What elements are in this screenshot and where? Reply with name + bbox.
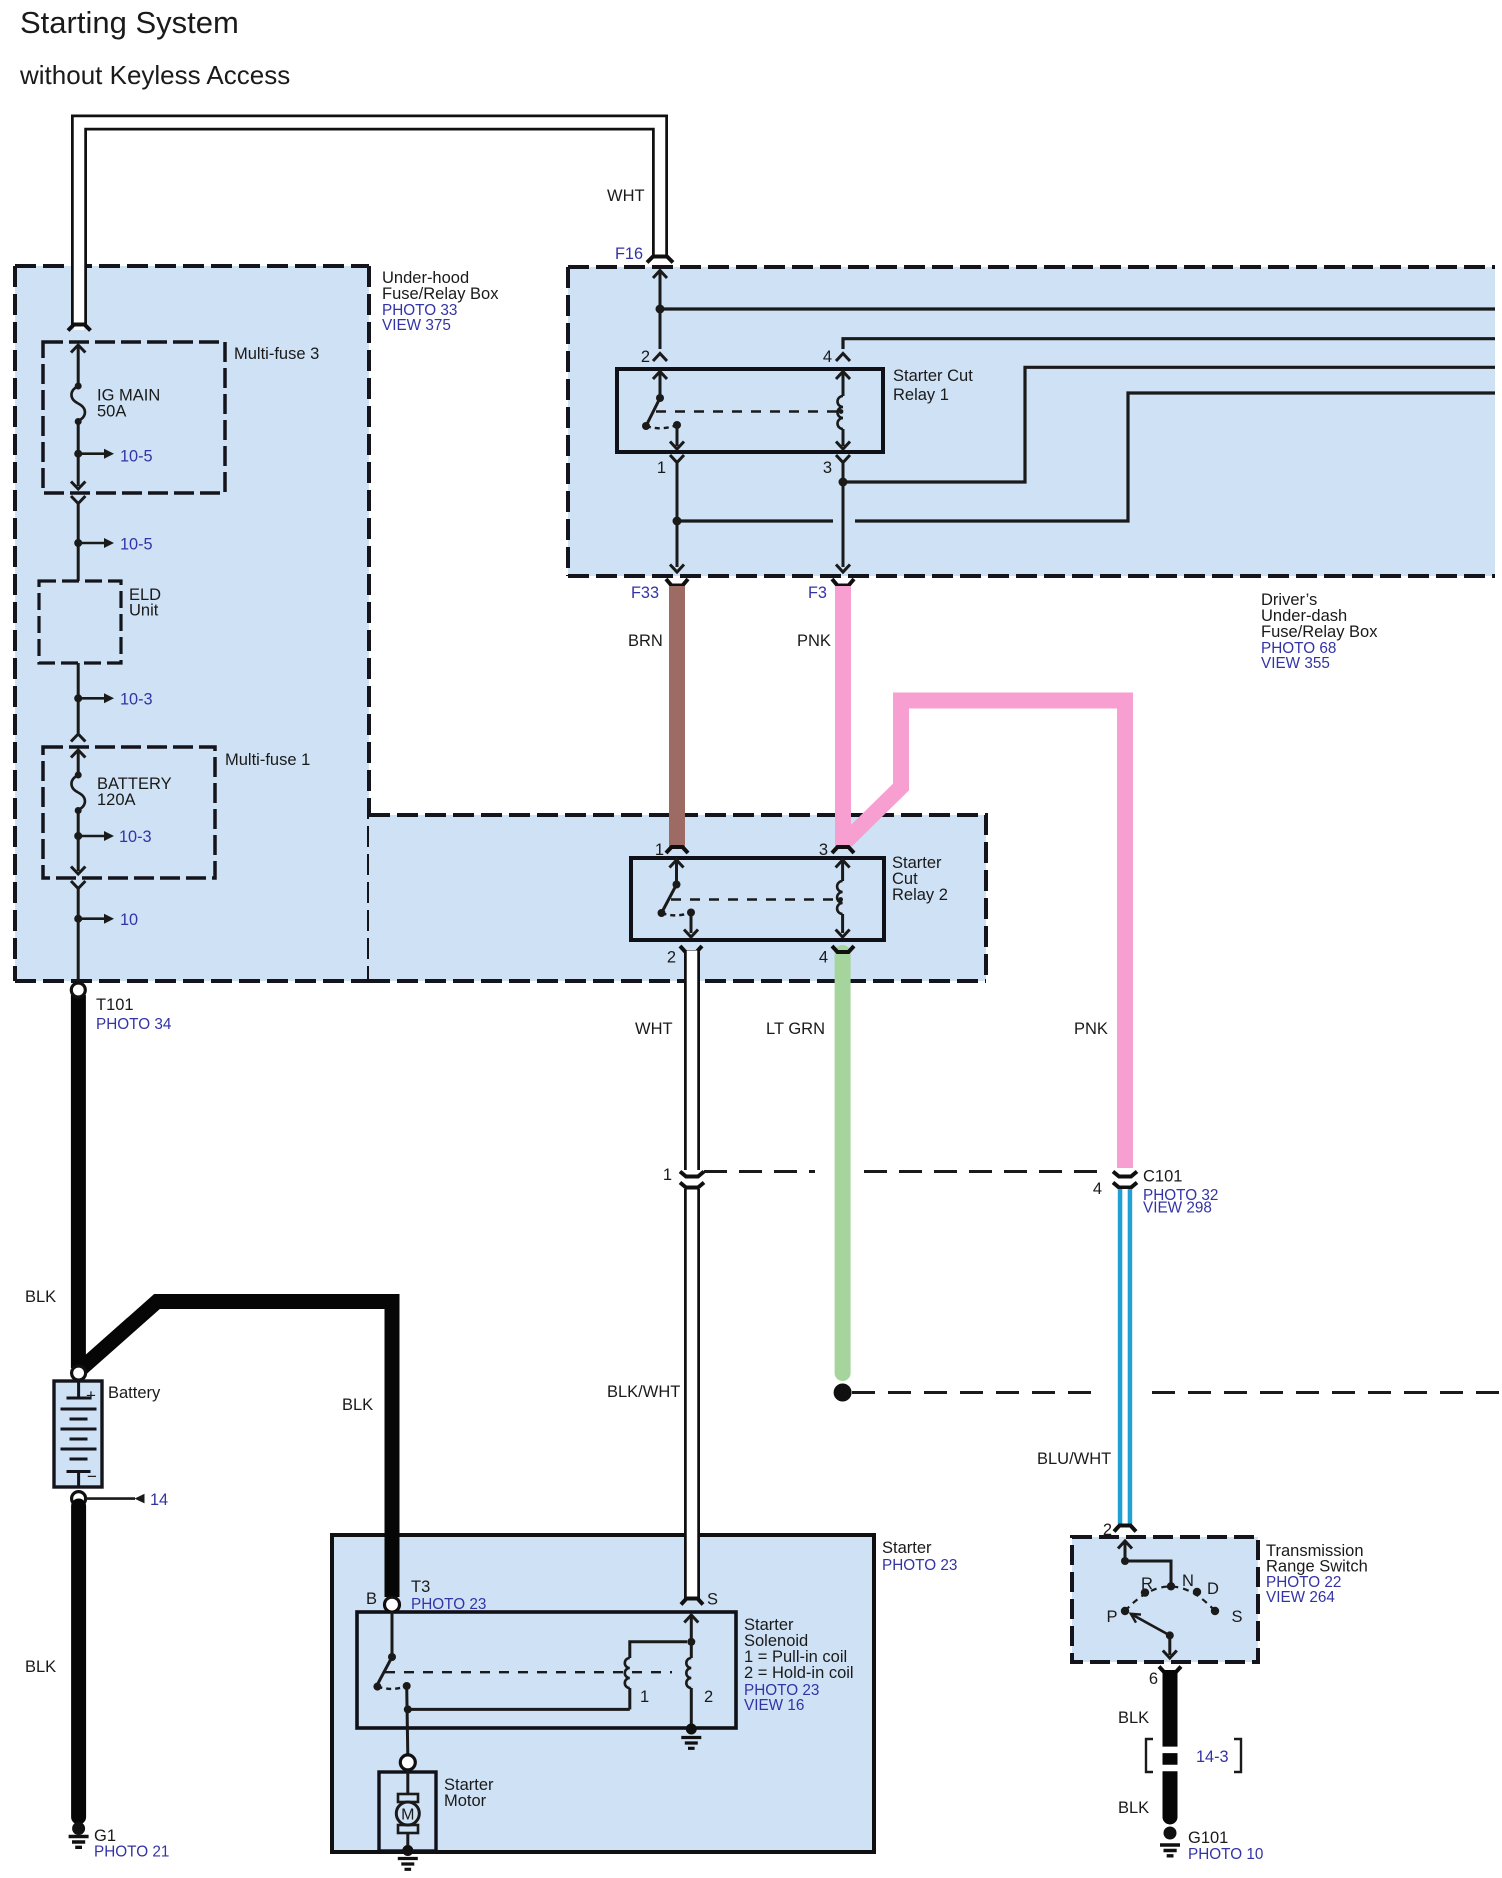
terminal cup relay2 pin2 — [680, 946, 702, 952]
svg-text:Relay 2: Relay 2 — [892, 886, 948, 904]
svg-text:14-3: 14-3 — [1196, 1748, 1229, 1766]
relay1 coil pin4-pin3 — [836, 372, 850, 380]
arrow up into box at F16 — [653, 271, 667, 279]
ELD Unit box — [39, 581, 121, 663]
op: relay U1 (Starter Cut Relay 1) body — [617, 369, 883, 452]
svg-text:10: 10 — [120, 911, 138, 929]
node + arrow to 10-3 — [74, 693, 114, 703]
arrow into TRS — [1118, 1541, 1132, 1549]
fuse BATTERY 120A — [71, 772, 85, 815]
TRS contacts dashed arc — [1125, 1587, 1215, 1612]
svg-text:VIEW 264: VIEW 264 — [1266, 1589, 1335, 1606]
battery — [54, 1381, 102, 1487]
solenoid internal dashed line — [385, 1671, 672, 1673]
terminal cup relay2 pin3 — [832, 847, 854, 853]
svg-text:Multi-fuse 3: Multi-fuse 3 — [234, 345, 319, 363]
svg-text:2: 2 — [641, 348, 650, 366]
pull-in coil 1 — [628, 1688, 631, 1709]
pin 2 chevron relay1 — [653, 354, 667, 362]
svg-text:PNK: PNK — [1074, 1020, 1108, 1038]
svg-text:2: 2 — [667, 949, 676, 967]
svg-text:without Keyless Access: without Keyless Access — [19, 60, 290, 90]
relay1 pin3 chevron + wire down to F3 — [836, 455, 850, 468]
arrow to 14 — [86, 1494, 145, 1504]
svg-text:WHT: WHT — [635, 1020, 673, 1038]
wire PNK F3 down to relay2 pin3 — [835, 586, 851, 846]
svg-text:−: − — [87, 1467, 97, 1486]
wire WHT top loop from under-hood box to F16 — [79, 123, 660, 331]
svg-text:Starter: Starter — [882, 1539, 932, 1557]
arrow up into Multi-fuse 3 — [71, 345, 85, 353]
svg-text:F33: F33 — [631, 584, 659, 602]
svg-text:BLK: BLK — [1118, 1709, 1149, 1727]
arrow up inside Multi-fuse 1 — [71, 750, 85, 758]
junction solenoid to starter motor — [400, 1755, 415, 1770]
TRS contact dots P R N D S — [1121, 1607, 1129, 1615]
svg-text:Battery: Battery — [108, 1384, 161, 1402]
Under-hood Fuse/Relay Box — [15, 266, 369, 981]
svg-text:Starter Cut: Starter Cut — [893, 367, 973, 385]
svg-text:F3: F3 — [808, 584, 827, 602]
svg-text:M: M — [401, 1807, 414, 1824]
svg-text:VIEW 355: VIEW 355 — [1261, 655, 1330, 672]
svg-text:14: 14 — [150, 1491, 168, 1509]
TRS wiper arm with arrow toward P — [1133, 1615, 1170, 1636]
svg-text:4: 4 — [823, 348, 832, 366]
arrow down leaving Multi-fuse 3 + chevron — [71, 482, 85, 490]
connector C101 cups on PNK/BLU wire — [1113, 1172, 1137, 1177]
svg-text:S: S — [1231, 1608, 1242, 1626]
svg-text:T101: T101 — [96, 996, 134, 1014]
wire PNK branch up and over to C101 — [846, 701, 1125, 1169]
svg-text:1: 1 — [640, 1688, 649, 1706]
relay2 coil — [836, 860, 850, 868]
terminal cup TRS pin6 — [1159, 1667, 1181, 1673]
svg-text:6: 6 — [1149, 1670, 1158, 1688]
starter motor box — [379, 1772, 436, 1851]
connector T3 (B terminal) — [385, 1597, 400, 1612]
svg-text:D: D — [1207, 1580, 1219, 1598]
svg-text:Unit: Unit — [129, 602, 159, 620]
node + arrow to 10-5 (inside Multi-fuse 3) — [74, 449, 114, 459]
hold-in coil 2 — [690, 1642, 693, 1658]
ground G101 — [1160, 1827, 1180, 1856]
svg-text:PHOTO 34: PHOTO 34 — [96, 1016, 172, 1033]
wire relay1 pin4 feed from right edge — [843, 339, 1495, 349]
svg-text:4: 4 — [1093, 1180, 1102, 1198]
svg-text:10-5: 10-5 — [120, 536, 153, 554]
svg-text:N: N — [1182, 1572, 1194, 1590]
middle fuse box (Starter Cut Relay 2 enclosure) — [15, 815, 986, 981]
relay1 internal dashed control line — [656, 410, 838, 412]
relay1 switch: pin2 arm — [653, 372, 667, 380]
node at F16 wire — [656, 305, 665, 314]
svg-text:G101: G101 — [1188, 1829, 1228, 1847]
connector 14-3 brackets — [1146, 1739, 1153, 1772]
svg-text:3: 3 — [819, 841, 828, 859]
svg-text:3: 3 — [823, 459, 832, 477]
wire WHT relay2 pin2 down to C101 — [684, 951, 700, 1172]
svg-text:T3: T3 — [411, 1578, 430, 1596]
node solenoid to pull-in coil — [404, 1705, 412, 1713]
node S wire to coils — [687, 1638, 695, 1646]
Multi-fuse 3 box — [43, 342, 225, 493]
Multi-fuse 1 box — [43, 747, 215, 878]
svg-text:PHOTO 21: PHOTO 21 — [94, 1844, 169, 1861]
svg-text:F16: F16 — [615, 245, 643, 263]
Starter box — [332, 1535, 874, 1852]
fuse IG MAIN 50A — [71, 383, 85, 426]
svg-text:WHT: WHT — [607, 187, 645, 205]
starter motor symbol — [396, 1770, 419, 1848]
connector C101 dashed line — [704, 1170, 1102, 1173]
svg-text:BLK: BLK — [342, 1396, 373, 1414]
svg-text:BLK/WHT: BLK/WHT — [607, 1383, 680, 1401]
terminal cup relay2 pin4 — [832, 946, 854, 952]
svg-text:4: 4 — [819, 949, 828, 967]
arrow down leaving Multi-fuse 1 + chevron — [71, 867, 85, 875]
solenoid internal ground — [681, 1724, 701, 1749]
svg-text:BLK: BLK — [1118, 1799, 1149, 1817]
svg-text:2 = Hold-in coil: 2 = Hold-in coil — [744, 1664, 854, 1682]
Transmission Range Switch box — [1072, 1537, 1258, 1662]
svg-text:1: 1 — [663, 1166, 672, 1184]
node + arrow to 10 — [74, 914, 114, 924]
wire F16 terminal to node to relay1 pin2 — [659, 271, 662, 349]
ground G1 — [69, 1822, 89, 1847]
svg-text:1: 1 — [655, 841, 664, 859]
svg-text:Range Switch: Range Switch — [1266, 1558, 1368, 1576]
wire BLK TRS to G101 (with 14-3 connector gaps) — [1163, 1670, 1178, 1818]
node: battery negative junction — [72, 1492, 86, 1506]
svg-text:1: 1 — [657, 459, 666, 477]
svg-text:VIEW 298: VIEW 298 — [1143, 1200, 1212, 1217]
svg-text:PHOTO 23: PHOTO 23 — [882, 1557, 957, 1574]
svg-text:BLU/WHT: BLU/WHT — [1037, 1450, 1111, 1468]
svg-text:VIEW 375: VIEW 375 — [382, 317, 451, 334]
svg-text:P: P — [1106, 1608, 1117, 1626]
wire LT GRN relay2 pin4 down to end dot — [835, 953, 851, 1373]
svg-text:120A: 120A — [97, 791, 136, 809]
svg-text:PNK: PNK — [797, 632, 831, 650]
wire BLK branch battery junction to starter B — [79, 1302, 392, 1598]
svg-text:Starting System: Starting System — [20, 5, 239, 40]
solenoid switch — [391, 1612, 394, 1655]
svg-text:B: B — [366, 1590, 377, 1608]
svg-text:S: S — [707, 1591, 718, 1609]
terminal cup TRS pin2 — [1114, 1526, 1136, 1532]
starter solenoid body — [357, 1612, 736, 1728]
svg-text:VIEW 16: VIEW 16 — [744, 1697, 804, 1714]
svg-text:PHOTO 23: PHOTO 23 — [411, 1596, 486, 1613]
svg-text:G1: G1 — [94, 1827, 116, 1845]
node + arrow to 10-3 (inside Multi-fuse 1) — [74, 831, 114, 841]
svg-text:R: R — [1141, 1575, 1153, 1593]
svg-text:LT GRN: LT GRN — [766, 1020, 825, 1038]
terminal cup relay2 pin1 — [666, 847, 688, 853]
svg-text:Relay 1: Relay 1 — [893, 386, 949, 404]
svg-text:Multi-fuse 1: Multi-fuse 1 — [225, 751, 310, 769]
terminal S cup — [681, 1599, 703, 1605]
svg-text:+: + — [86, 1386, 96, 1405]
svg-text:BRN: BRN — [628, 632, 663, 650]
wire BLK battery to G1 — [71, 1506, 86, 1817]
svg-text:10-3: 10-3 — [120, 691, 153, 709]
wire relay1 pin3 to right edge — [843, 367, 1495, 482]
wire BLK/WHT C101 down to starter S terminal — [684, 1189, 700, 1600]
svg-text:50A: 50A — [97, 403, 126, 421]
node: battery positive junction — [72, 1366, 86, 1380]
wire BLK T101 to battery — [71, 995, 86, 1368]
svg-text:10-3: 10-3 — [119, 828, 152, 846]
node + arrow to 10-5 (mid) — [74, 538, 114, 548]
connector C101 cups on WHT wire — [680, 1172, 704, 1177]
svg-text:Fuse/Relay Box: Fuse/Relay Box — [382, 285, 499, 303]
wire F16 node horizontal to right edge — [660, 307, 1495, 310]
terminal cup F3 — [832, 579, 854, 586]
svg-text:C101: C101 — [1143, 1168, 1182, 1186]
svg-text:2: 2 — [1103, 1521, 1112, 1539]
terminal cup at Multi-fuse 3 (end of WHT wire) — [68, 325, 91, 331]
relay2 switch — [670, 860, 684, 868]
svg-text:2: 2 — [704, 1688, 713, 1706]
dashed line from LT GRN dot to right edge (gap at BLU wire) — [852, 1391, 1502, 1394]
node: LT GRN wire end dot — [834, 1384, 852, 1402]
relay2 internal dashed control line — [671, 898, 833, 900]
svg-text:Motor: Motor — [444, 1792, 487, 1810]
svg-text:PHOTO 10: PHOTO 10 — [1188, 1846, 1263, 1863]
wire BRN F33 to relay2 pin1 — [669, 586, 685, 848]
svg-text:Fuse/Relay Box: Fuse/Relay Box — [1261, 623, 1378, 641]
terminal cup F33 — [666, 579, 688, 586]
svg-text:BLK: BLK — [25, 1658, 56, 1676]
Driver's Under-dash Fuse/Relay Box — [568, 267, 1495, 576]
arrow up at S into solenoid — [684, 1615, 698, 1623]
chevron entering Multi-fuse 1 — [71, 734, 85, 742]
terminal cup F16 (end of WHT wire) — [647, 257, 673, 263]
wire BLU/WHT C101 down to transmission range switch — [1118, 1189, 1132, 1524]
svg-text:10-5: 10-5 — [120, 448, 153, 466]
relay1 pin1 chevron + wire down to F33 — [670, 455, 684, 468]
svg-text:BLK: BLK — [25, 1288, 56, 1306]
wire relay1 pin1 to right edge (gap at pin3 wire) — [677, 393, 1495, 521]
connector T101 — [71, 983, 85, 997]
relay U2 (Starter Cut Relay 2) body — [631, 858, 884, 940]
starter motor ground — [398, 1845, 418, 1869]
